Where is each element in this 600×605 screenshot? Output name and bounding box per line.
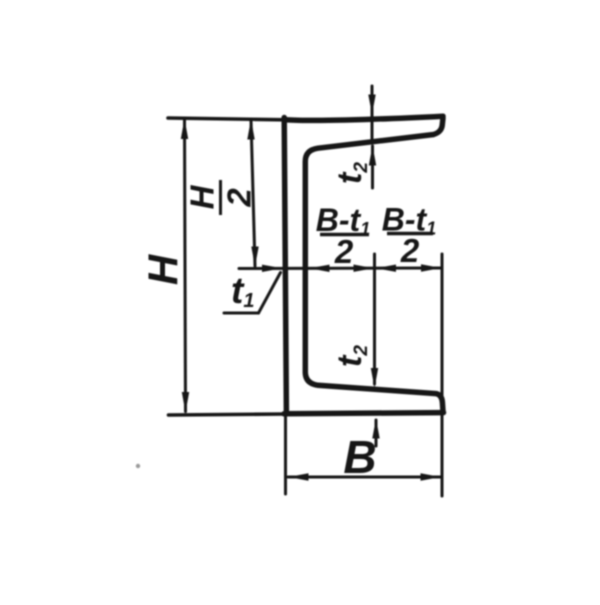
channel top flange outer edge — [285, 116, 443, 120]
label H (rotated) — [140, 253, 187, 285]
arrowhead pointing right at right extension line (B-t1/2 second) — [421, 264, 441, 271]
arrowhead H/2 top (up) — [247, 119, 254, 140]
arrowhead pointing down at bottom flange inner face (t2 bottom) — [371, 368, 378, 388]
leader underline of t1 label — [224, 312, 259, 315]
arrowhead H/2 bottom (down) — [251, 247, 258, 267]
arrowhead H bottom (down) — [182, 392, 189, 413]
arrowhead H top (up) — [181, 119, 188, 140]
arrowhead pointing right at middle division line (B-t1/2 first) — [354, 265, 374, 272]
arrowhead B left — [289, 473, 309, 480]
t2 bottom tail line below flange — [375, 420, 378, 446]
label B-t1/2 second: fraction bar — [387, 232, 433, 236]
extension line top-left (H, H/2 datum) — [168, 118, 285, 120]
leader slanted line t1 to web — [259, 273, 281, 314]
extension line bottom-left (H datum) — [169, 414, 287, 415]
label H/2 fraction (rotated) — [184, 180, 258, 215]
svg-text:H: H — [140, 253, 187, 285]
svg-text:2: 2 — [221, 188, 258, 208]
extension line web below bottom flange (B datum left) — [284, 415, 287, 494]
label B-t1/2 first: fraction bar — [320, 233, 369, 237]
dimension line H/2 — [251, 120, 255, 266]
channel bottom flange outer edge — [284, 413, 444, 414]
arrowhead B right — [421, 473, 441, 480]
arrowhead pointing up at top flange inner face (t2 top) — [369, 146, 376, 166]
arrowhead pointing right at web outer face (t1) — [262, 265, 282, 272]
extension/dimension line middle division (B-t1/2 split, t2 bottom) — [373, 254, 376, 384]
label t2 bottom (rotated) — [331, 345, 372, 367]
dimension line H — [185, 120, 186, 412]
arrowhead pointing left at middle division line (B-t1/2 second) — [376, 265, 396, 272]
arrowhead pointing left at web inner face (B-t1/2 first) — [310, 265, 330, 272]
label t2 top (rotated) — [331, 162, 372, 184]
channel top flange tip and inner contour — [305, 118, 443, 412]
t2 top tail line below inner face — [371, 146, 374, 188]
svg-text:2: 2 — [400, 232, 420, 269]
svg-text:H: H — [184, 184, 221, 209]
t2 top dimension line above flange — [371, 86, 374, 139]
extension line right of flange tips (B datum right) — [441, 254, 444, 496]
arrowhead pointing down at top flange outer face (t2 top) — [368, 95, 375, 115]
svg-text:B: B — [343, 431, 376, 483]
dimension line at mid-height (t1 and B-t1/2 line) — [239, 267, 442, 271]
dimension line B — [288, 476, 441, 479]
channel web outer face — [284, 118, 286, 414]
svg-text:2: 2 — [334, 233, 354, 270]
stray scan speck — [136, 464, 140, 468]
arrowhead pointing up at bottom flange outer face (t2 bottom) — [372, 419, 379, 439]
